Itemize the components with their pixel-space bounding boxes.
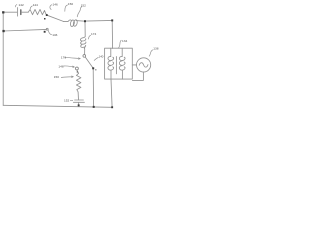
svg-text:144: 144: [33, 3, 38, 7]
svg-text:142: 142: [19, 3, 24, 7]
svg-text:134: 134: [122, 39, 127, 43]
svg-text:176: 176: [61, 56, 66, 60]
svg-text:150: 150: [54, 75, 59, 79]
svg-text:174: 174: [91, 32, 96, 36]
svg-text:146: 146: [52, 33, 57, 37]
svg-text:150: 150: [68, 2, 73, 6]
svg-text:152: 152: [81, 3, 86, 7]
svg-text:140: 140: [99, 54, 104, 58]
svg-text:152: 152: [64, 98, 69, 102]
svg-text:146: 146: [53, 3, 58, 7]
svg-text:138: 138: [153, 46, 158, 50]
svg-text:148: 148: [58, 64, 63, 68]
